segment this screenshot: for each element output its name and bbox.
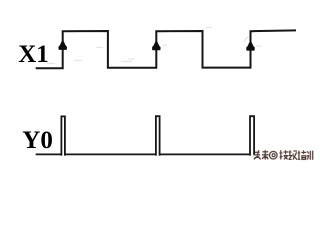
svg-text:X1: X1 bbox=[18, 41, 49, 68]
svg-text:Y0: Y0 bbox=[22, 127, 53, 154]
